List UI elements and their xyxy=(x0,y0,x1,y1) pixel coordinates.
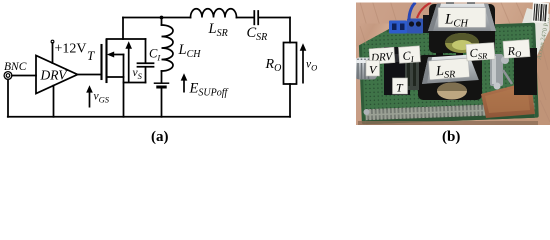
svg-text:DRV: DRV xyxy=(40,68,69,83)
svg-text:LCH: LCH xyxy=(178,42,202,60)
svg-text:vO: vO xyxy=(306,59,317,73)
svg-text:RO: RO xyxy=(265,57,282,74)
svg-text:vGS: vGS xyxy=(94,91,110,105)
svg-text:+12V: +12V xyxy=(55,42,87,57)
svg-text:T: T xyxy=(87,48,95,63)
svg-text:CSR: CSR xyxy=(247,25,268,43)
svg-text:BNC: BNC xyxy=(4,61,27,73)
svg-text:LSR: LSR xyxy=(208,21,228,39)
svg-text:(a): (a) xyxy=(151,129,169,145)
svg-text:ESUPoff: ESUPoff xyxy=(189,81,229,99)
svg-text:(b): (b) xyxy=(442,129,460,145)
svg-text:CI: CI xyxy=(149,47,161,63)
svg-text:vS: vS xyxy=(133,67,143,81)
